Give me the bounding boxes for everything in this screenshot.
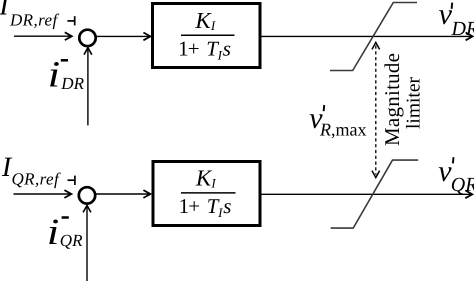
node I_DR,ref label	[0, 0, 59, 29]
svg-text:s: s	[223, 37, 231, 61]
svg-text:I: I	[217, 205, 223, 220]
svg-text:I: I	[210, 18, 216, 33]
svg-text:+: +	[188, 194, 200, 218]
wire: feedback arrow up into top summing junction	[84, 48, 92, 126]
summing junction (bottom)	[79, 187, 95, 203]
svg-text:K: K	[194, 8, 212, 33]
svg-text:QR,ref: QR,ref	[12, 169, 61, 188]
svg-text:s: s	[223, 194, 231, 218]
wire: feedback arrow up into bottom summing junction	[83, 205, 91, 281]
block U2: K_I/(1+T_I s) (bottom PI block)	[153, 162, 260, 226]
minus sign (bottom feedback)	[62, 216, 69, 219]
Magnitude limiter rotated caption	[380, 53, 425, 146]
node v'_DR output label	[439, 0, 474, 40]
limiter (top saturation symbol)	[330, 3, 417, 71]
svg-text:DR,ref: DR,ref	[9, 10, 59, 29]
plus sign at summing input (bottom)	[68, 176, 76, 185]
wire: top block to output arrow	[261, 33, 473, 41]
svg-text:Magnitude: Magnitude	[380, 53, 404, 146]
plus sign at summing input (top)	[67, 16, 75, 25]
node v'_QR output label	[438, 155, 474, 196]
svg-text:R,max: R,max	[319, 119, 367, 139]
svg-text:QR: QR	[60, 231, 83, 250]
svg-text:I: I	[217, 48, 223, 63]
svg-text:limiter: limiter	[404, 77, 425, 129]
minus sign (top feedback)	[61, 59, 68, 62]
wire: input arrow into top summing junction	[14, 32, 72, 40]
wire: bottom block to output arrow	[260, 190, 472, 198]
svg-text:i: i	[48, 55, 61, 96]
wire: bottom summing junction to block	[96, 190, 151, 198]
svg-text:I: I	[210, 176, 216, 191]
summing junction (top)	[79, 30, 95, 46]
node I_QR,ref label	[1, 152, 61, 188]
block U1: K_I/(1+T_I s) (top PI block)	[153, 4, 261, 68]
svg-text:i: i	[47, 212, 60, 253]
svg-text:DR: DR	[451, 18, 474, 40]
svg-text:+: +	[188, 37, 200, 61]
node v'_R,max label	[309, 102, 366, 139]
svg-text:QR: QR	[451, 174, 474, 196]
node i_QR label	[47, 212, 83, 253]
svg-text:v: v	[439, 0, 453, 31]
svg-text:K: K	[195, 166, 213, 191]
svg-text:DR: DR	[60, 74, 84, 93]
limiter (bottom saturation symbol)	[331, 160, 419, 228]
node i_DR label	[48, 55, 85, 96]
wire: top summing junction to block	[96, 33, 150, 41]
dashed magnitude-limit link (double arrow)	[372, 42, 380, 177]
wire: input arrow into bottom summing junction	[14, 190, 72, 198]
